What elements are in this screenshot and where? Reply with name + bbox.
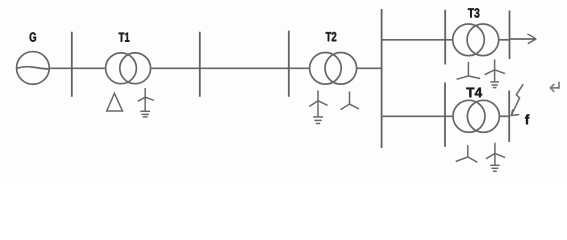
generator G (17, 52, 50, 85)
transformer T3 (453, 24, 499, 56)
label T3 (468, 8, 480, 17)
T1 delta winding symbol (107, 93, 123, 111)
transmission line bus2 to bus3 (200, 67, 289, 69)
wire T1 to bus2 (151, 67, 200, 69)
wire generator to bus1 (49, 67, 72, 69)
bus bar 3 (288, 31, 290, 97)
bus bar 2 (199, 32, 201, 97)
wire bus3 to T2 (289, 67, 310, 69)
wire T4 to right bus (499, 115, 509, 117)
wire T2 to bus4 (357, 67, 382, 69)
T4 wye winding symbol (456, 145, 478, 162)
label T2 (326, 32, 337, 41)
transformer T4 (453, 100, 499, 132)
wire bus4 to T3 (382, 39, 453, 41)
T2 grounded wye winding symbol (309, 90, 327, 123)
T4 right bus bar (508, 91, 510, 143)
label f (525, 114, 529, 124)
wire bus4 to T4 (382, 115, 454, 117)
T3 left bus bar (444, 10, 446, 65)
load arrow from T3 (510, 34, 536, 44)
T4 grounded wye winding symbol (486, 143, 505, 172)
bus bar 4 (381, 9, 383, 148)
transformer T2 (310, 53, 357, 85)
T1 grounded wye winding symbol (138, 88, 154, 117)
bus bar 1 (71, 32, 73, 97)
label G (30, 32, 36, 41)
fault lightning bolt (511, 84, 523, 115)
wire bus1 to T1 (72, 67, 106, 69)
T3 right bus bar (509, 10, 511, 59)
T4 left bus bar (444, 83, 446, 147)
wire T3 to right bus (499, 39, 510, 41)
T3 grounded wye winding symbol (485, 59, 505, 87)
paragraph mark (550, 82, 559, 92)
T3 wye winding symbol (457, 62, 481, 79)
label T1 (119, 33, 130, 42)
T2 wye winding symbol (341, 91, 359, 109)
transformer T1 (106, 53, 151, 84)
label T4 (466, 88, 482, 98)
